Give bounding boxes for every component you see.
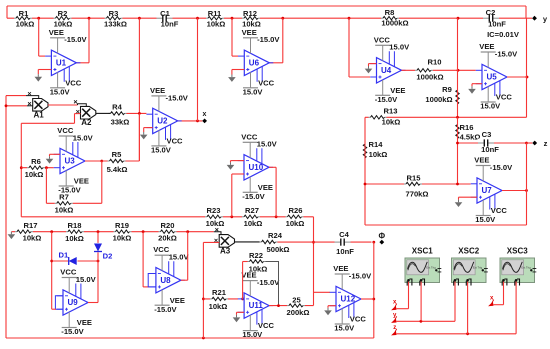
svg-text:15.0V: 15.0V	[334, 324, 355, 333]
svg-text:10nF: 10nF	[336, 247, 354, 256]
wire D network riser left	[51, 232, 53, 310]
junction dots top line	[37, 17, 40, 20]
wire U8 output riser	[181, 279, 188, 281]
ground U3	[50, 153, 61, 155]
svg-text:-15.0V: -15.0V	[64, 35, 87, 44]
wire bottom rail	[6, 337, 374, 339]
svg-text:10kΩ: 10kΩ	[369, 150, 388, 159]
wire U12 output	[361, 298, 374, 300]
node y	[532, 16, 537, 21]
wire C3 line	[458, 142, 527, 144]
wire U1 input riser	[38, 18, 40, 56]
svg-text:R17: R17	[24, 221, 38, 230]
capacitor C4	[335, 238, 351, 247]
svg-text:Ext Trig: Ext Trig	[473, 266, 483, 270]
svg-text:5.4kΩ: 5.4kΩ	[107, 165, 128, 174]
op-amp U5	[482, 64, 507, 89]
svg-text:Ext Trig: Ext Trig	[521, 266, 531, 270]
ground U7	[459, 196, 478, 198]
svg-text:C1: C1	[160, 9, 170, 18]
svg-text:33kΩ: 33kΩ	[111, 118, 130, 127]
svg-text:-15.0V: -15.0V	[495, 49, 518, 58]
op-amp U8	[156, 268, 181, 293]
svg-text:VCC: VCC	[258, 321, 275, 330]
svg-text:-15.0V: -15.0V	[61, 327, 84, 336]
svg-text:R24: R24	[268, 231, 283, 240]
svg-text:VCC: VCC	[60, 268, 77, 277]
svg-text:15.0V: 15.0V	[151, 146, 172, 155]
ground U2	[144, 127, 153, 129]
resistor R4	[109, 110, 127, 117]
svg-text:VEE: VEE	[77, 318, 92, 327]
ground U1	[38, 69, 51, 71]
svg-text:VEE: VEE	[479, 42, 494, 51]
svg-text:10kΩ: 10kΩ	[382, 118, 401, 127]
wire R16 column	[457, 117, 459, 184]
svg-text:VEE: VEE	[390, 86, 405, 95]
svg-text:R16: R16	[460, 123, 474, 132]
svg-text:4.5kΩ: 4.5kΩ	[460, 133, 481, 142]
wire U9 output	[88, 302, 98, 304]
op-amp U4	[377, 58, 402, 83]
ground U6	[232, 69, 244, 71]
wire A2 output lead	[96, 112, 111, 114]
wire U7 feedback loop	[526, 143, 528, 225]
resistor R16	[454, 123, 461, 141]
svg-text:R23: R23	[207, 206, 221, 215]
svg-text:D1: D1	[59, 250, 69, 259]
svg-text:-15.0V: -15.0V	[242, 192, 265, 201]
svg-text:-15.0V: -15.0V	[257, 35, 280, 44]
wire R22 feedback loop	[242, 262, 244, 299]
wire U8 input riser	[142, 232, 144, 287]
svg-text:-15.0V: -15.0V	[490, 163, 513, 172]
svg-text:770kΩ: 770kΩ	[406, 189, 429, 198]
wire R14 column to R15 and U7 loop	[364, 117, 366, 225]
op-amp U1	[51, 50, 76, 75]
resistor R20	[159, 228, 177, 235]
svg-text:R9: R9	[442, 85, 452, 94]
resistor R21	[210, 296, 228, 303]
node phi	[379, 240, 384, 245]
oscilloscope XSC2	[452, 258, 487, 283]
svg-text:10kΩ: 10kΩ	[55, 206, 74, 215]
svg-text:C3: C3	[482, 130, 492, 139]
svg-text:VEE: VEE	[74, 177, 89, 186]
svg-text:IC=0.01V: IC=0.01V	[487, 30, 520, 39]
wire R21 line	[203, 298, 238, 300]
resistor R17	[15, 228, 33, 235]
svg-text:R22: R22	[249, 251, 263, 260]
svg-text:1000kΩ: 1000kΩ	[381, 18, 408, 27]
svg-text:R8: R8	[385, 8, 395, 17]
svg-text:10kΩ: 10kΩ	[286, 219, 305, 228]
resistor R14	[362, 142, 369, 160]
resistor R12	[242, 15, 260, 22]
svg-text:z: z	[393, 325, 396, 331]
ground R17	[10, 232, 12, 235]
resistor R18	[66, 228, 84, 235]
wire R10 to U5 input	[457, 69, 460, 72]
svg-text:1000kΩ: 1000kΩ	[425, 95, 452, 104]
svg-text:15.0V: 15.0V	[242, 330, 263, 339]
svg-text:R15: R15	[407, 174, 422, 183]
svg-text:15.0V: 15.0V	[480, 102, 501, 111]
capacitor C1	[157, 14, 173, 23]
wire top feedback bus y to R1	[7, 5, 526, 7]
svg-text:R14: R14	[369, 140, 384, 149]
wire ladder line	[21, 216, 313, 218]
wire U2 summing riser	[138, 18, 140, 161]
connector x to XSC3	[488, 302, 493, 307]
svg-text:VEE: VEE	[258, 183, 273, 192]
svg-text:x: x	[203, 111, 207, 118]
wire R9 column	[457, 18, 459, 117]
op-amp U9	[63, 290, 88, 315]
multiplier A3	[219, 235, 234, 248]
wire C2 feedback right side	[526, 18, 528, 117]
multiplier A2	[81, 106, 96, 119]
svg-text:15.0V: 15.0V	[257, 140, 278, 149]
resistor R10	[415, 67, 433, 74]
svg-text:VCC: VCC	[241, 132, 258, 141]
svg-text:R5: R5	[112, 150, 122, 159]
svg-text:VEE: VEE	[170, 296, 185, 305]
svg-text:15.0V: 15.0V	[389, 43, 410, 52]
resistor R7	[55, 200, 73, 207]
ground U10	[231, 160, 245, 162]
svg-text:10kΩ: 10kΩ	[65, 234, 84, 243]
wire phi ladder riser left	[20, 123, 22, 217]
resistor R25	[287, 302, 305, 309]
svg-text:15.0V: 15.0V	[243, 87, 264, 96]
svg-text:R19: R19	[115, 221, 129, 230]
wire phi riser to U12 output and rail	[373, 242, 375, 338]
svg-text:R7: R7	[59, 193, 69, 202]
svg-text:R10: R10	[428, 58, 442, 67]
svg-text:U10: U10	[249, 163, 264, 172]
svg-text:U9: U9	[68, 298, 79, 307]
wire top component line	[7, 17, 532, 19]
svg-text:VEE: VEE	[150, 86, 165, 95]
wire A2 top input bend	[78, 104, 87, 107]
wire x node line	[176, 120, 202, 122]
svg-text:C2: C2	[486, 8, 496, 17]
wire U7 output	[502, 190, 527, 192]
connector x to XSC1	[391, 306, 396, 311]
ground U4	[369, 63, 377, 65]
svg-text:VCC: VCC	[496, 93, 513, 102]
svg-text:U12: U12	[341, 295, 356, 304]
svg-text:VEE: VEE	[474, 156, 489, 165]
capacitor C2	[483, 14, 499, 23]
svg-text:10kΩ: 10kΩ	[206, 219, 225, 228]
op-amp U3	[60, 148, 85, 173]
svg-text:500kΩ: 500kΩ	[267, 245, 290, 254]
svg-text:-15.0V: -15.0V	[257, 278, 280, 287]
resistor R19	[114, 228, 132, 235]
wire U4 inverting input riser	[348, 18, 350, 77]
wire U9 input bracket	[55, 296, 63, 309]
wire U8 input bracket	[148, 274, 156, 287]
svg-text:VEE: VEE	[333, 264, 348, 273]
wire U10 input riser	[232, 173, 244, 175]
resistor R13	[369, 114, 387, 121]
svg-text:10kΩ: 10kΩ	[209, 302, 228, 311]
svg-text:15.0V: 15.0V	[475, 215, 496, 224]
wire D1 line	[52, 260, 98, 262]
resistor R5	[108, 158, 126, 165]
svg-text:U3: U3	[65, 157, 76, 166]
svg-text:R6: R6	[31, 157, 41, 166]
svg-text:U6: U6	[249, 58, 260, 67]
svg-text:15.0V: 15.0V	[73, 133, 94, 142]
svg-text:10nF: 10nF	[161, 19, 179, 28]
svg-text:A2: A2	[81, 118, 92, 127]
resistor R22	[248, 258, 266, 265]
wire C4 to phi node	[372, 241, 375, 244]
svg-text:U7: U7	[482, 186, 493, 195]
wire A3 output lead	[235, 241, 271, 243]
svg-text:10nF: 10nF	[481, 145, 499, 154]
svg-text:10kΩ: 10kΩ	[244, 219, 263, 228]
svg-text:VCC: VCC	[65, 78, 82, 87]
wire R7 feedback loop	[45, 168, 47, 204]
svg-text:U4: U4	[381, 66, 392, 75]
wire A3 bottom input	[203, 241, 219, 243]
wire D2 riser	[97, 232, 99, 303]
svg-text:Ext Trig: Ext Trig	[426, 266, 436, 270]
svg-text:U11: U11	[249, 301, 264, 310]
svg-text:VEE: VEE	[242, 28, 257, 37]
wire R5 riser to summing node	[102, 160, 140, 162]
resistor R8	[381, 15, 399, 22]
wire U12 input	[314, 291, 331, 293]
wire A1 bottom input	[6, 105, 27, 107]
resistor R3	[105, 15, 123, 22]
svg-text:z: z	[544, 139, 548, 148]
svg-text:R27: R27	[245, 206, 259, 215]
svg-text:R18: R18	[68, 221, 82, 230]
svg-text:A3: A3	[220, 246, 231, 255]
ground U11	[237, 311, 245, 313]
oscilloscope XSC3	[500, 258, 535, 283]
svg-text:R3: R3	[109, 9, 119, 18]
resistor R23	[205, 213, 223, 220]
svg-text:10kΩ: 10kΩ	[207, 19, 226, 28]
wire R13 line	[365, 116, 527, 118]
svg-text:200kΩ: 200kΩ	[287, 308, 310, 317]
svg-text:C4: C4	[339, 230, 349, 239]
svg-text:VCC: VCC	[153, 245, 170, 254]
wire phi riser to A3 and R21	[202, 242, 204, 338]
op-amp U11	[244, 293, 269, 318]
multiplier A1	[33, 99, 48, 112]
svg-text:Φ: Φ	[379, 231, 386, 240]
svg-text:A1: A1	[33, 110, 44, 119]
resistor R11	[206, 15, 224, 22]
svg-text:R12: R12	[243, 9, 257, 18]
svg-text:VEE: VEE	[49, 28, 64, 37]
svg-text:10kΩ: 10kΩ	[25, 170, 44, 179]
wire U1 output riser	[88, 18, 90, 63]
connector y line	[391, 318, 396, 323]
capacitor C3	[478, 139, 494, 148]
op-amp U2	[153, 108, 178, 133]
resistor R6	[27, 164, 45, 171]
svg-text:20kΩ: 20kΩ	[158, 233, 177, 242]
wire U6 input riser	[231, 18, 233, 56]
svg-text:1000kΩ: 1000kΩ	[416, 73, 443, 82]
diode D1	[68, 257, 77, 266]
svg-text:D2: D2	[103, 251, 113, 260]
node z	[527, 142, 533, 144]
svg-text:R11: R11	[208, 9, 222, 18]
svg-text:15.0V: 15.0V	[50, 87, 71, 96]
wire U6 output riser	[282, 18, 284, 63]
svg-text:VCC: VCC	[258, 78, 275, 87]
resistor R27	[242, 213, 260, 220]
wire A3 top input	[214, 232, 221, 235]
svg-text:10kΩ: 10kΩ	[249, 264, 268, 273]
svg-text:U8: U8	[160, 276, 171, 285]
wire A1 output to A2	[48, 104, 78, 106]
svg-text:R26: R26	[289, 206, 303, 215]
resistor R15	[404, 181, 422, 188]
op-amp U6	[244, 50, 269, 75]
svg-text:U2: U2	[157, 117, 168, 126]
wire R17 ladder	[11, 231, 213, 233]
wire U5 output	[507, 76, 527, 78]
wire U4 output to R10	[402, 69, 476, 71]
svg-text:R13: R13	[384, 107, 398, 116]
svg-text:-15.0V: -15.0V	[166, 93, 189, 102]
diode D2	[94, 243, 103, 252]
svg-text:10kΩ: 10kΩ	[23, 233, 42, 242]
svg-text:10nF: 10nF	[488, 19, 506, 28]
svg-text:25: 25	[292, 295, 301, 304]
svg-text:VCC: VCC	[57, 126, 74, 135]
svg-text:10kΩ: 10kΩ	[113, 233, 132, 242]
resistor R24	[260, 239, 278, 246]
wire A1 top input	[6, 95, 26, 97]
wire R4 line	[111, 112, 147, 114]
svg-text:15.0V: 15.0V	[169, 253, 190, 262]
ground U5	[472, 83, 482, 85]
wire U10 output riser	[269, 166, 276, 168]
svg-text:R1: R1	[19, 9, 29, 18]
svg-text:-15.0V: -15.0V	[154, 305, 177, 314]
node x	[202, 119, 207, 124]
svg-text:XSC1: XSC1	[412, 247, 433, 256]
wire U11 output	[269, 305, 313, 307]
svg-text:R2: R2	[58, 9, 68, 18]
resistor R26	[286, 213, 304, 220]
svg-text:VCC: VCC	[350, 315, 367, 324]
svg-text:VCC: VCC	[167, 137, 184, 146]
oscilloscope XSC1	[405, 258, 440, 283]
resistor R2	[54, 15, 72, 22]
wire A2 bottom input	[75, 113, 81, 115]
resistor R1	[14, 15, 32, 22]
connector z line	[391, 331, 396, 336]
svg-text:U1: U1	[56, 58, 67, 67]
svg-text:10kΩ: 10kΩ	[16, 19, 35, 28]
svg-text:VCC: VCC	[374, 35, 391, 44]
svg-text:R4: R4	[112, 103, 122, 112]
wire U3 output	[85, 160, 102, 162]
svg-text:133kΩ: 133kΩ	[104, 19, 127, 28]
wire R6 to U3	[21, 167, 53, 169]
op-amp U10	[244, 155, 269, 180]
ground U12	[328, 305, 336, 307]
wire R24 to summing node	[270, 241, 372, 243]
svg-text:VCC: VCC	[491, 206, 508, 215]
svg-text:XSC2: XSC2	[458, 247, 479, 256]
svg-text:-15.0V: -15.0V	[349, 271, 372, 280]
resistor R9	[454, 88, 461, 106]
svg-text:y: y	[543, 15, 548, 24]
svg-text:XSC3: XSC3	[507, 247, 528, 256]
wire R15 line	[365, 183, 471, 185]
wire C1 to U2 output riser	[197, 18, 199, 121]
svg-text:U5: U5	[487, 73, 498, 82]
svg-text:-15.0V: -15.0V	[375, 95, 398, 104]
svg-text:R21: R21	[212, 288, 227, 297]
op-amp U7	[477, 178, 502, 203]
op-amp U12	[336, 286, 361, 311]
wire R26 to summing riser	[313, 217, 315, 306]
svg-text:R20: R20	[161, 221, 175, 230]
wire phi rail riser far left	[5, 96, 7, 338]
svg-text:15.0V: 15.0V	[76, 275, 97, 284]
